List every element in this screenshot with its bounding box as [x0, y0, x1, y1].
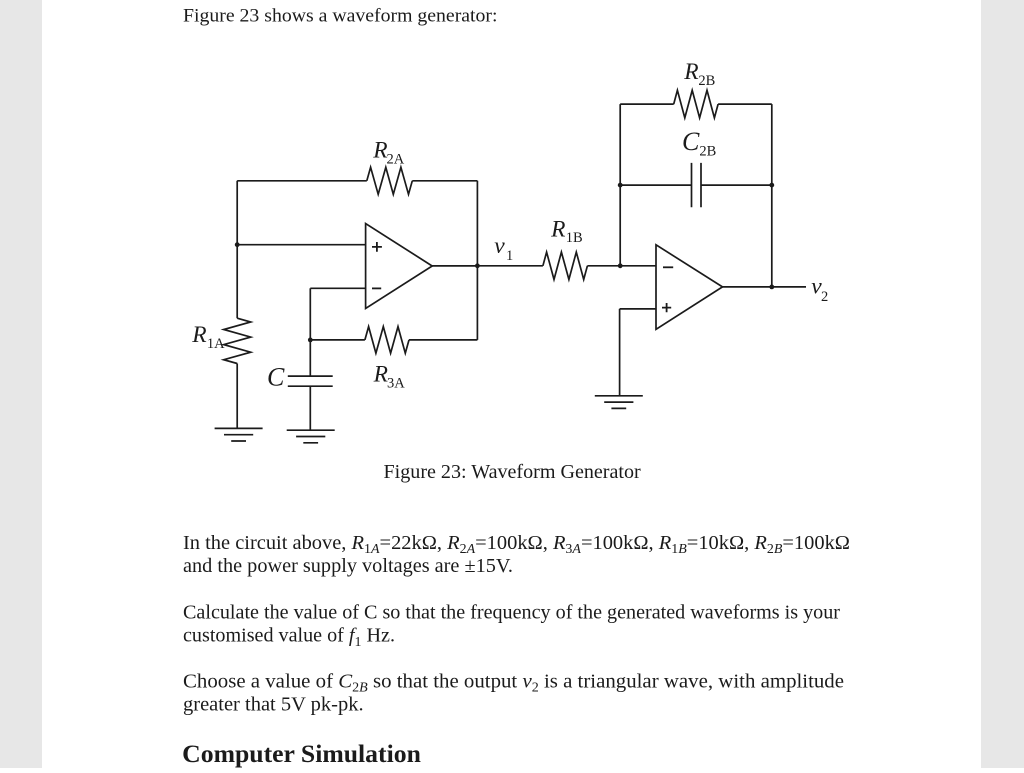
svg-text:In the circuit above, R1A=22kΩ: In the circuit above, R1A=22kΩ, R2A=100k… — [183, 532, 850, 556]
svg-text:2B: 2B — [698, 73, 715, 89]
svg-text:Computer Simulation: Computer Simulation — [182, 740, 421, 768]
svg-text:Figure 23 shows a waveform gen: Figure 23 shows a waveform generator: — [183, 5, 498, 26]
svg-text:2A: 2A — [387, 152, 405, 168]
svg-text:3A: 3A — [387, 375, 405, 391]
svg-text:Figure 23: Waveform Generator: Figure 23: Waveform Generator — [384, 461, 642, 483]
svg-text:C: C — [267, 363, 285, 392]
svg-text:R: R — [191, 322, 206, 348]
svg-text:2: 2 — [821, 289, 828, 305]
svg-text:1: 1 — [506, 248, 513, 264]
svg-text:1A: 1A — [207, 336, 225, 352]
svg-text:Calculate the value of C so th: Calculate the value of C so that the fre… — [183, 601, 840, 623]
svg-text:v: v — [494, 233, 505, 259]
svg-text:R: R — [372, 138, 387, 164]
svg-text:2B: 2B — [699, 144, 716, 160]
svg-text:greater that 5V pk-pk.: greater that 5V pk-pk. — [183, 694, 364, 716]
svg-text:1B: 1B — [566, 230, 583, 246]
svg-text:and the power supply voltages: and the power supply voltages are ±15V. — [183, 555, 513, 577]
svg-text:R: R — [373, 362, 388, 388]
svg-text:Choose a value of C2B so that: Choose a value of C2B so that the output… — [183, 670, 844, 694]
svg-text:R: R — [550, 216, 565, 242]
svg-text:C: C — [682, 127, 700, 156]
svg-text:customised value of f1 Hz.: customised value of f1 Hz. — [183, 625, 395, 649]
svg-text:R: R — [683, 59, 698, 85]
